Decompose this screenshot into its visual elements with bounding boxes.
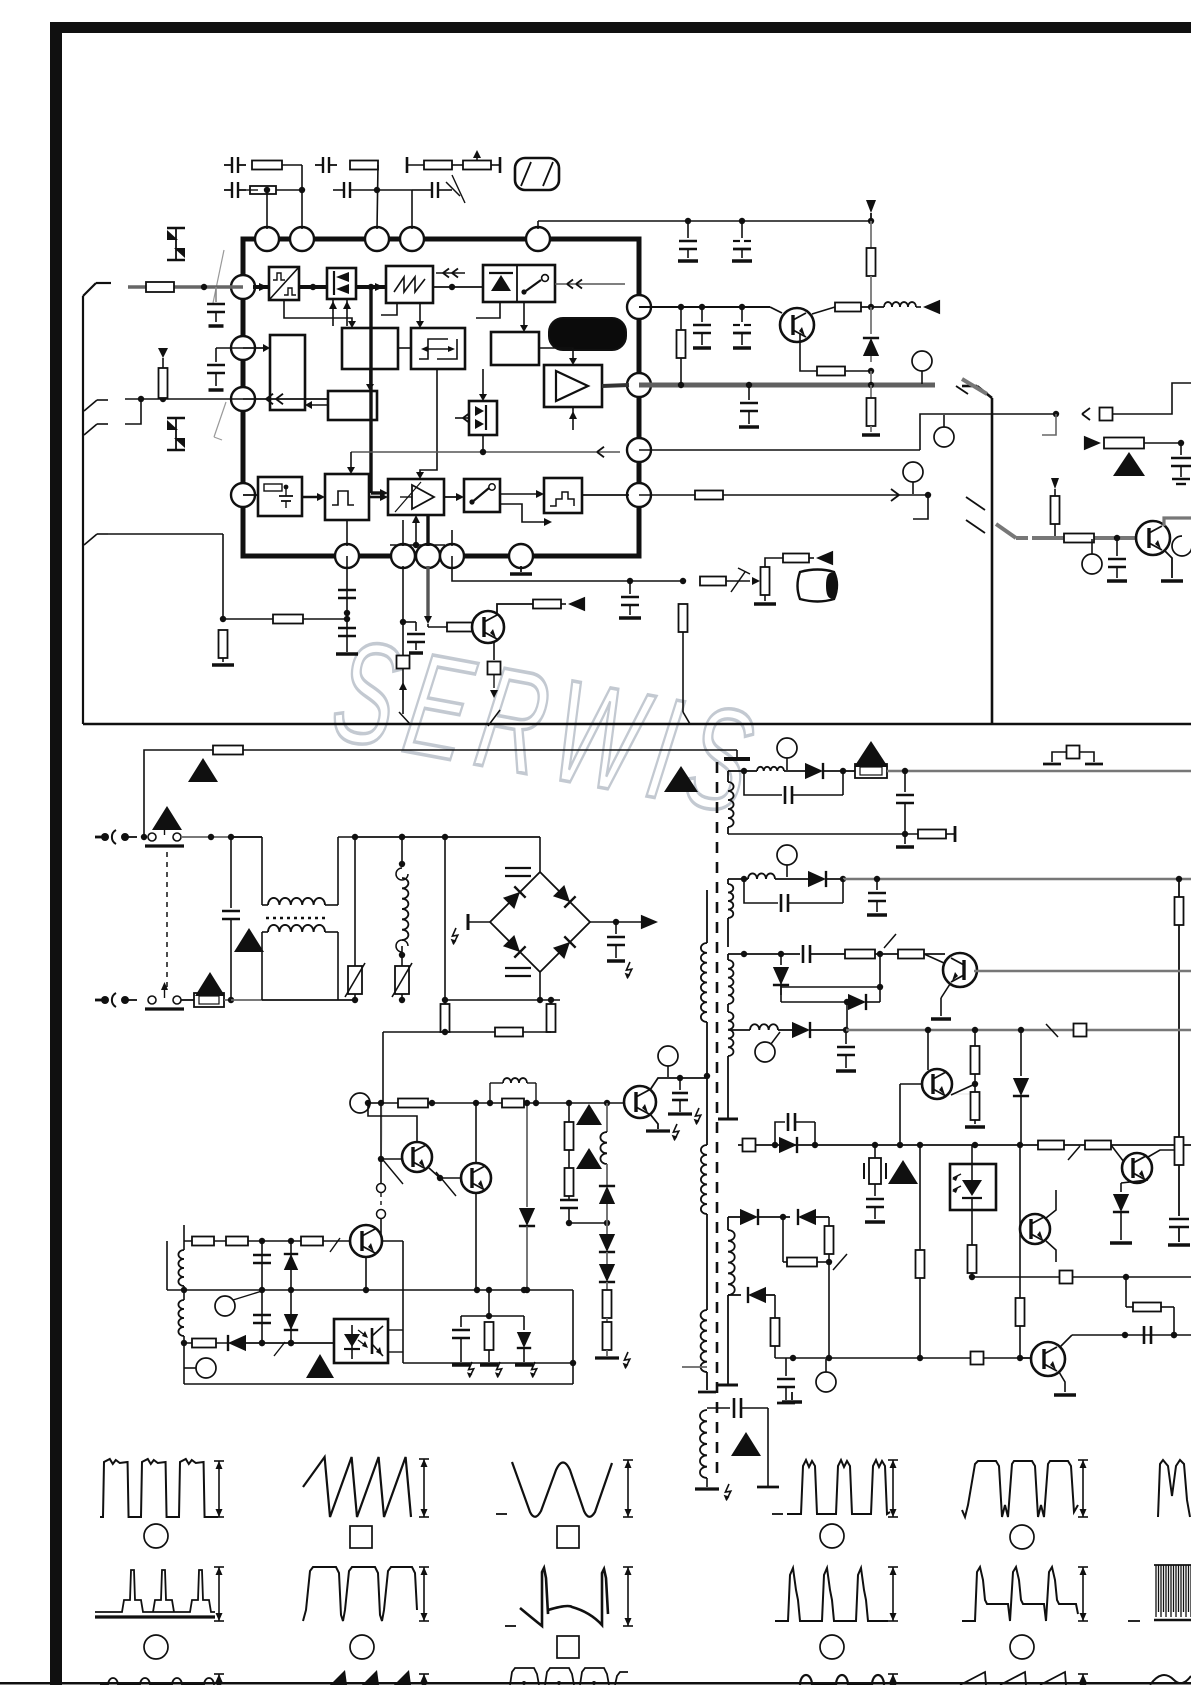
wire sec2 out xyxy=(843,876,1191,882)
resistor video out xyxy=(700,568,750,592)
wire hysteresis down to comparator xyxy=(416,369,437,479)
pointer small fr xyxy=(1051,478,1059,496)
capacitor sec1 xyxy=(896,771,914,837)
resistor vertical crt xyxy=(754,567,776,604)
waveform W6 xyxy=(505,1568,608,1626)
diode sec3 loop xyxy=(781,954,883,1030)
wire video amp to hysteresis xyxy=(398,347,411,349)
transformer core dashed xyxy=(716,762,719,1482)
wire standby rail xyxy=(365,1100,624,1106)
testpoint sb bottom xyxy=(184,1358,216,1378)
resistor rail5 b xyxy=(1085,1141,1111,1150)
diode col607 d1 xyxy=(599,1223,615,1264)
IC pin bottom xyxy=(335,544,359,568)
wire bottom pin b xyxy=(402,520,404,546)
wire hook 495 xyxy=(913,495,928,519)
resistor q3 out xyxy=(812,303,884,315)
transistor Q8 xyxy=(1020,1214,1050,1244)
snubber rail5 xyxy=(775,1113,815,1145)
wire sec3 out xyxy=(974,970,1191,972)
wire q5 emitter xyxy=(931,984,951,1019)
secondary winding 2 xyxy=(728,879,733,947)
wire comparator up arrow xyxy=(390,515,445,548)
bridge cap top xyxy=(505,868,531,876)
resistor col569 a xyxy=(565,1103,574,1168)
wire rail 450 xyxy=(639,411,1059,450)
diode col607 up xyxy=(599,1186,615,1223)
feedback winding xyxy=(701,1145,707,1310)
spark gap upper xyxy=(167,228,185,260)
oscillogram label circle 7 xyxy=(820,1524,844,1548)
bridge cap bottom xyxy=(505,968,531,976)
snubber q13 xyxy=(668,1078,701,1125)
warning triangle fr xyxy=(1113,452,1145,476)
diode sec1 xyxy=(805,763,846,779)
IC pin left xyxy=(231,275,255,299)
waveform arrow W1 xyxy=(214,1461,224,1517)
wire q2 emitter xyxy=(488,641,501,726)
wire main input thick xyxy=(128,283,384,291)
resistor fr2 xyxy=(1051,496,1060,538)
capacitor hang 702 xyxy=(693,307,711,348)
oscillogram label circle 10 xyxy=(820,1635,844,1659)
resistor rail538 xyxy=(1064,534,1094,543)
inductor sec2 xyxy=(748,873,808,879)
resistor 829 xyxy=(825,1217,834,1265)
testpoint right edge xyxy=(1172,536,1191,556)
wire q12 collector xyxy=(382,1240,403,1242)
warning triangle bottom xfmr xyxy=(731,1432,761,1456)
varistor V2 with choke xyxy=(392,834,412,1003)
diode sec4 xyxy=(792,1022,849,1038)
bottom winding box xyxy=(707,1398,779,1487)
capacitor net2 row2 xyxy=(333,182,412,229)
wire bridge top xyxy=(539,837,541,872)
capacitor bridge out xyxy=(607,922,632,979)
aux winding low xyxy=(698,1310,716,1392)
mains switch bottom xyxy=(145,982,184,1009)
resistor q6 b xyxy=(965,1092,985,1127)
waveform W11 xyxy=(962,1567,1078,1621)
adjust slash sb xyxy=(274,1342,285,1356)
varistor V1 xyxy=(345,834,365,1000)
zener supply xyxy=(863,307,879,362)
waveform W14 partial xyxy=(330,1670,429,1685)
wire 569-607 xyxy=(569,1220,610,1226)
wire b3-b4 xyxy=(433,284,483,290)
secondary winding 3 xyxy=(728,954,733,1012)
terminal top xfmr xyxy=(724,757,750,761)
wire b3 bottom drops xyxy=(381,303,424,328)
resistor col569 b xyxy=(565,1168,574,1200)
adjust slash rail5 xyxy=(1068,1146,1080,1160)
ground mid xyxy=(782,1392,802,1402)
wire q10 collector xyxy=(368,1103,417,1142)
waveform arrow W6 xyxy=(623,1567,633,1626)
wire q8 emitter xyxy=(1046,1241,1056,1262)
resistor 920 col xyxy=(916,1145,925,1361)
wire pin thick to transistor xyxy=(424,566,447,627)
diode sec4 down xyxy=(1013,1030,1029,1145)
wire standby enclosure xyxy=(184,1290,576,1384)
IC pin bottom xyxy=(416,544,440,568)
wire psu feed xyxy=(144,750,737,837)
IC pin top xyxy=(400,227,424,251)
diode sec3 down xyxy=(773,954,789,995)
wire rc to pulse xyxy=(302,493,325,501)
wire to top right xyxy=(1113,383,1191,414)
adjust slash q12 xyxy=(330,1238,340,1252)
wire rail8 xyxy=(775,1352,1031,1365)
waveform W15 partial xyxy=(510,1668,628,1685)
wire entry y534 xyxy=(84,534,223,545)
capacitor aux xyxy=(403,622,425,653)
wire regulator input arrow xyxy=(243,344,270,352)
page border top bar xyxy=(50,22,1191,33)
ntc resistor 2 xyxy=(547,997,556,1032)
wire switch lower path xyxy=(500,504,552,526)
wire q8 collector xyxy=(1046,1190,1056,1218)
wire rail 538 gray xyxy=(1032,535,1136,541)
transistor Q10 xyxy=(402,1142,432,1172)
jumper link right xyxy=(1043,746,1103,765)
capacitor across mains xyxy=(222,837,240,1003)
wire down to resistor net xyxy=(220,534,226,622)
snubber sec2 xyxy=(744,879,843,912)
wire hook 414 xyxy=(1042,414,1056,435)
wire triple gnd xyxy=(461,1290,524,1319)
secondary winding 5 xyxy=(718,1217,738,1385)
yoke symbol xyxy=(515,158,559,190)
oscillogram label circle 8 xyxy=(1010,1525,1034,1549)
wire standby mid xyxy=(167,1241,573,1293)
diode sb col2 xyxy=(284,1241,298,1346)
inductor parallel xyxy=(487,1078,539,1106)
block sync separator xyxy=(269,267,299,300)
wire q5 base xyxy=(924,954,944,963)
transistor Q3 xyxy=(780,308,814,342)
wire opto out xyxy=(403,1362,573,1364)
wire q9 collector xyxy=(1060,1335,1072,1347)
resistor far right xyxy=(1104,438,1184,449)
transistor Q5 xyxy=(943,953,977,987)
resistor 775 xyxy=(771,1318,780,1358)
block double diode clamp xyxy=(327,268,356,299)
IC pin left xyxy=(231,483,255,507)
block comparator xyxy=(388,479,444,515)
resistor net3 row1 xyxy=(407,150,500,173)
wire sec1 lead xyxy=(728,768,747,774)
bridge rectifier outline xyxy=(490,872,590,972)
testpoint sb left xyxy=(215,1291,262,1316)
ground at IC bottom pin xyxy=(510,566,532,574)
resistor supply xyxy=(867,221,876,307)
connector chevron 497 xyxy=(966,497,985,533)
waveform W1 xyxy=(100,1459,218,1517)
capacitor 786 xyxy=(777,1358,795,1403)
connector chevron gray xyxy=(996,524,1028,538)
wire crt feed xyxy=(765,551,833,567)
resistor sb in xyxy=(192,1339,216,1348)
capacitor gnd a xyxy=(452,1316,474,1378)
warning triangle 569b xyxy=(576,1148,602,1169)
IC pin top xyxy=(255,227,279,251)
block sawtooth generator xyxy=(386,266,433,303)
waveform W17 partial xyxy=(960,1672,1088,1685)
wire rail 495 xyxy=(639,489,931,501)
wire q11 collector xyxy=(475,1103,477,1163)
warning triangle cap xyxy=(234,928,264,952)
filter core dotted xyxy=(266,917,328,920)
diode sb in xyxy=(228,1335,334,1351)
transistor Q6 xyxy=(922,1069,952,1099)
waveform W10 xyxy=(775,1568,888,1621)
resistor sec3 a xyxy=(845,934,898,959)
transistor Q13 main switch xyxy=(624,1086,656,1118)
block staircase xyxy=(544,478,582,513)
waveform W4 xyxy=(95,1570,215,1617)
resistor col607 b xyxy=(595,1322,630,1369)
op-amp IC U1 outline xyxy=(243,239,639,556)
spark gap lower xyxy=(167,418,185,450)
testpoint 450 xyxy=(934,415,954,447)
resistor standby a xyxy=(398,1099,428,1108)
secondary winding 4 xyxy=(718,1012,738,1119)
waveform W8 xyxy=(962,1461,1078,1517)
wire q4 emitter xyxy=(1161,550,1183,581)
capacitor rail7 xyxy=(1144,1326,1151,1344)
block video amp xyxy=(342,328,398,369)
IC pin right xyxy=(627,373,651,397)
wire mains t xyxy=(355,834,540,840)
wire rail7 xyxy=(1072,1332,1191,1338)
wire into double diode xyxy=(455,369,487,423)
wire opto vertical xyxy=(388,1241,403,1363)
section border bottom xyxy=(83,723,1191,726)
block hysteresis xyxy=(411,328,465,369)
oscillogram label circle 5 xyxy=(350,1635,374,1659)
wire bus b2-b3 xyxy=(356,284,386,290)
block switch small xyxy=(464,479,500,512)
jumper 414 xyxy=(1100,408,1113,421)
mains plug bottom xyxy=(95,993,137,1007)
wire 829 down xyxy=(828,1262,830,1358)
capacitor net2 row1 xyxy=(315,157,378,229)
fuse mains xyxy=(181,993,231,1007)
return sec1 xyxy=(728,826,955,842)
warning triangle resonator xyxy=(888,1160,918,1184)
section border left xyxy=(83,283,111,724)
warning triangle fuse xyxy=(195,972,225,996)
resistor sec3 b xyxy=(898,950,945,959)
resistor psu feed xyxy=(213,746,243,755)
capacitor col569 xyxy=(560,1200,578,1226)
wire q2 collector xyxy=(497,597,585,614)
IC pin left xyxy=(231,336,255,360)
resistor base q2 xyxy=(447,623,473,632)
resistor drop v xyxy=(679,604,691,724)
resistor gnd b xyxy=(480,1322,502,1378)
bridge diode 2 xyxy=(553,885,576,908)
wire q6 collector xyxy=(925,1027,931,1070)
resistor right col a xyxy=(1175,879,1184,1137)
diode 527 xyxy=(519,1100,535,1293)
transistor Q7 xyxy=(1122,1153,1152,1183)
connector chevron 385 xyxy=(956,379,987,394)
waveform W9 xyxy=(1158,1460,1190,1517)
waveform arrow W8 xyxy=(1078,1460,1088,1517)
wire q7 base xyxy=(1111,1145,1124,1162)
IC pin bottom xyxy=(391,544,415,568)
IC pin top xyxy=(365,227,389,251)
testpoint rail385 xyxy=(912,351,932,384)
supply pointer down xyxy=(866,200,876,224)
wire q9 base xyxy=(1017,1355,1031,1361)
wire AGC to regulator xyxy=(305,401,328,409)
testpoint sec2 xyxy=(777,845,797,877)
resistor hang 681 xyxy=(677,307,686,385)
arrow into resistor xyxy=(752,577,760,585)
diode col607 d2 xyxy=(599,1264,615,1290)
wire pin to RC block xyxy=(243,494,258,496)
waveform W16 partial xyxy=(800,1674,898,1685)
capacitor fr xyxy=(1171,443,1191,484)
capacitor sec2 xyxy=(867,878,887,915)
wire rail 307 xyxy=(639,304,770,310)
wire rail 385 thick xyxy=(639,382,935,388)
IC pin top xyxy=(526,227,550,251)
wire q12 emitter xyxy=(363,1257,369,1293)
wire mains to bridge xyxy=(445,972,560,1003)
warning triangle fuse sec1 xyxy=(854,741,888,767)
wire sec4 lead xyxy=(728,1029,750,1031)
waveform W5 xyxy=(303,1567,417,1621)
wire standby top xyxy=(184,1238,350,1244)
waveform W2 sawtooth xyxy=(303,1457,411,1517)
waveform W13 partial xyxy=(100,1674,224,1685)
wire q8 base xyxy=(1019,1145,1021,1298)
waveform W12 dense xyxy=(1128,1565,1191,1621)
inductor sec4 xyxy=(750,1024,793,1030)
warning triangle opto xyxy=(306,1354,334,1378)
waveform arrow W10 xyxy=(888,1567,898,1621)
bridge diode 3 xyxy=(503,935,526,958)
wire q7 emitter xyxy=(1121,1180,1148,1183)
transistor Q11 xyxy=(461,1163,491,1193)
waveform arrow W5 xyxy=(419,1567,429,1621)
oscillogram label circle 4 xyxy=(144,1635,168,1659)
transistor Q4 xyxy=(1136,521,1170,555)
wire pulse to comparator xyxy=(369,493,388,501)
capacitor chain pin a xyxy=(336,556,358,654)
resistor col607 a xyxy=(603,1290,612,1322)
wire entry lower xyxy=(84,399,141,435)
waveform arrow W11 xyxy=(1078,1567,1088,1621)
waveform arrow W7 xyxy=(888,1460,898,1517)
black rounded block xyxy=(549,318,626,350)
wire switch to staircase xyxy=(500,490,544,498)
capacitor c rail1b xyxy=(732,221,752,261)
waveform arrow W2 xyxy=(419,1459,429,1517)
resistor bias h xyxy=(223,615,350,624)
block AGC xyxy=(328,391,377,420)
wire reference to output amp xyxy=(539,348,577,365)
wire bus vertical xyxy=(371,289,388,497)
optocoupler U2 xyxy=(950,1164,996,1210)
wire sec4 out xyxy=(846,1024,1191,1038)
IC pin left xyxy=(231,387,255,411)
wire rail6 xyxy=(972,1271,1191,1284)
wire q7 collector xyxy=(1148,1147,1182,1157)
wire comparator to switch xyxy=(444,493,464,501)
wire bus b1-b2 xyxy=(299,284,327,290)
wire standby bottom in xyxy=(184,1340,334,1346)
wire output amp thick xyxy=(602,385,629,386)
resistor parallel xyxy=(502,1099,524,1108)
IC pin right xyxy=(627,295,651,319)
testpoint q13 xyxy=(658,1046,678,1077)
block double diode small xyxy=(469,401,497,435)
resistor sb b xyxy=(226,1237,248,1246)
capacitor net1 row2 xyxy=(224,182,305,229)
arrow conn 414 xyxy=(1082,408,1090,420)
ntc resistor 1 xyxy=(441,837,450,1032)
testpoint 495 xyxy=(903,462,923,494)
capacitor c rail1 xyxy=(678,221,698,261)
wire arrows into b4 right xyxy=(555,280,625,289)
primary winding main xyxy=(701,890,710,1145)
wire mains top xyxy=(141,834,262,840)
wire b4 down to reference xyxy=(476,302,528,332)
wire ntc rail xyxy=(383,1028,551,1104)
resistor divider xyxy=(158,348,168,399)
oscillogram label square 2 xyxy=(350,1526,372,1548)
capacitor input hang xyxy=(207,287,225,326)
switch linkage dashed xyxy=(166,852,168,988)
wire q4 collector xyxy=(1164,518,1191,526)
capacitor net1 row1 xyxy=(224,157,302,229)
block pulse shaper xyxy=(325,474,369,520)
wire bottom pin thick xyxy=(426,515,429,546)
oscillogram label circle 11 xyxy=(1010,1635,1034,1659)
wire output amp up arrow xyxy=(569,407,577,430)
bridge output xyxy=(590,915,658,929)
wire q11 emitter xyxy=(475,1193,477,1290)
wire long feedback xyxy=(347,435,620,474)
wire bottom pin a xyxy=(346,520,348,546)
warning triangle feed xyxy=(188,758,218,782)
adjust slash 829 xyxy=(833,1254,847,1270)
warning triangle 569a xyxy=(576,1104,602,1125)
bridge diode 4 xyxy=(553,936,576,959)
IC pin right xyxy=(627,438,651,462)
page border left bar xyxy=(50,22,62,1685)
block reference xyxy=(491,332,539,365)
oscillogram label square 6 xyxy=(557,1636,579,1658)
capacitor sb col1 xyxy=(253,1241,271,1346)
wire top pin5 rail xyxy=(538,218,871,229)
wire pin to AGC xyxy=(243,398,328,400)
testpoint standby in xyxy=(350,1093,383,1113)
wire q6 base xyxy=(900,1084,922,1145)
inductor col607 xyxy=(600,1103,607,1186)
wire rail 1295 xyxy=(728,1287,775,1318)
wire rail 1217 xyxy=(728,1209,790,1225)
waveform arrow W3 xyxy=(623,1460,633,1517)
waveform W18 partial xyxy=(1150,1675,1191,1685)
capacitor hang 749 xyxy=(739,385,759,427)
wire bottom pin c xyxy=(451,530,453,546)
